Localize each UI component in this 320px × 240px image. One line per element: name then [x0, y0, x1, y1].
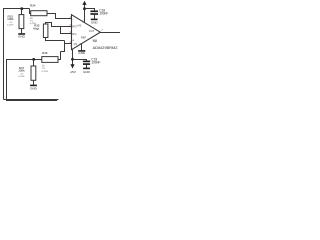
ground below C19	[83, 67, 90, 69]
svg-text:100nF: 100nF	[99, 12, 108, 16]
svg-text:+VS: +VS	[76, 24, 81, 28]
svg-text:N8: N8	[93, 39, 97, 43]
wire: top input net from frame corner to R34	[4, 9, 32, 100]
ground below R37	[30, 84, 37, 86]
resistor R33	[19, 15, 24, 29]
wire: C19 to ground	[86, 65, 88, 68]
node: junction at +VS branch	[83, 7, 86, 10]
svg-text:RG: RG	[72, 32, 76, 36]
svg-text:0,25W: 0,25W	[7, 24, 14, 26]
wire: -VS pin down to -15V	[72, 49, 74, 66]
power +15V arrow symbol	[84, 3, 86, 22]
wire: R33 bottom lead	[21, 29, 23, 34]
wire: C18 to ground	[94, 15, 96, 19]
node: junction at -VS branch	[71, 58, 74, 61]
wire: lower input net to R36	[7, 60, 58, 101]
wire: R35 bottom lead down to +IN net	[46, 38, 65, 41]
svg-text:-VS: -VS	[73, 42, 78, 46]
wire: RG pin 3 stub with riser	[61, 27, 72, 34]
svg-text:AD8429BRMZ: AD8429BRMZ	[93, 46, 119, 50]
ground at REF	[78, 50, 85, 52]
svg-text:GND: GND	[78, 51, 86, 55]
wire: branch to C18	[85, 9, 95, 11]
svg-text:R34: R34	[30, 3, 36, 7]
resistor R35 (Abgl.)	[43, 24, 48, 38]
svg-text:REF: REF	[81, 36, 87, 40]
svg-text:0,25W: 0,25W	[18, 76, 25, 78]
capacitor C18	[90, 10, 98, 12]
svg-text:100k: 100k	[7, 17, 14, 21]
svg-text:+: +	[72, 38, 74, 42]
wire: R34 to op-amp -IN (pin 1)	[47, 14, 72, 19]
wire: R33 top lead	[21, 9, 23, 16]
op-amp U1 AD8429BRMZ triangle	[72, 15, 101, 50]
ground below C18	[91, 18, 98, 20]
wire: R36 right lead staircase to +IN (pin 4)	[58, 52, 61, 60]
resistor R34	[31, 11, 47, 16]
svg-text:GND: GND	[18, 35, 26, 39]
resistor R36	[42, 57, 58, 63]
svg-text:GND: GND	[30, 86, 38, 90]
wire: R35 top lead to RG pin 2	[46, 23, 72, 27]
resistor R37	[31, 66, 36, 80]
svg-text:GND: GND	[83, 70, 91, 74]
ground below R33	[18, 33, 25, 35]
svg-text:100nF: 100nF	[91, 61, 100, 65]
node: junction on top net (R33 tap)	[20, 7, 23, 10]
wire: branch to C19	[73, 60, 87, 61]
svg-text:-15V: -15V	[69, 70, 76, 74]
capacitor C19	[83, 60, 90, 62]
svg-text:R36: R36	[42, 51, 48, 55]
svg-text:OUT: OUT	[89, 29, 95, 33]
svg-text:-: -	[72, 17, 73, 21]
power -15V arrow symbol	[70, 64, 74, 68]
svg-text:1%: 1%	[42, 68, 45, 70]
wire: output from apex to right edge	[100, 32, 120, 34]
wire: frame bottom segment	[4, 99, 59, 101]
wire: R37 top lead	[33, 60, 35, 67]
svg-text:Abgl.: Abgl.	[33, 27, 40, 31]
node: junction R37 tap	[32, 58, 35, 61]
wire: REF pin to ground	[81, 43, 83, 50]
svg-text:100k: 100k	[18, 69, 25, 73]
svg-text:0,25W: 0,25W	[42, 71, 49, 73]
svg-text:GND: GND	[91, 20, 99, 24]
wire: R37 bottom lead	[33, 80, 35, 85]
